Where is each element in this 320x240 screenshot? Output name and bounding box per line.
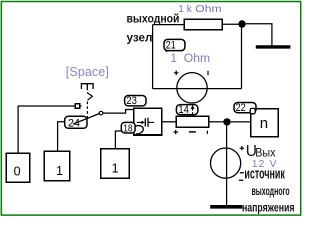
node callout 21 — [164, 39, 185, 52]
source U-top (circle, 1 Ohm) — [174, 71, 208, 104]
indicator box n — [251, 109, 279, 137]
resistor R-top (1 k Ohm) — [184, 19, 222, 30]
node callout 18 — [121, 122, 143, 134]
svg-text:выходного: выходного — [252, 184, 290, 198]
switch terminal (left pin) — [75, 104, 79, 108]
wire: node to resistor R-top left — [153, 24, 185, 26]
wire: loop right vertical — [241, 28, 243, 89]
wire: capacitor box to resistor R-mid — [162, 121, 177, 123]
node callout 23 — [125, 95, 146, 107]
svg-text:21: 21 — [166, 40, 176, 52]
svg-text:22: 22 — [236, 102, 246, 114]
svg-text:Ohm: Ohm — [195, 4, 221, 15]
node callout 14 with arrow — [176, 104, 198, 117]
label: U vyh — [246, 143, 276, 160]
svg-text:14: 14 — [178, 104, 189, 116]
svg-text:напряжения: напряжения — [242, 201, 295, 215]
indicator box 0 — [6, 153, 29, 182]
wire: terminal stub — [80, 105, 82, 107]
value label: 1 k Ohm — [178, 4, 221, 15]
svg-text:n: n — [260, 115, 268, 132]
svg-text:Вых: Вых — [255, 146, 275, 160]
svg-text:выходной: выходной — [127, 13, 180, 25]
wire: junction down through source to ground — [226, 126, 228, 206]
wire: junction to indicator n — [231, 121, 251, 123]
wire: junction to ground stub — [246, 24, 272, 45]
voltage source U-out (12 V circle) — [211, 146, 245, 180]
resistor R-mid — [176, 116, 208, 127]
wire: resistor R-top to junction — [222, 23, 238, 25]
svg-text:1: 1 — [171, 53, 177, 65]
svg-text:источник: источник — [244, 167, 285, 183]
ground (top right) — [256, 45, 291, 48]
svg-text:1: 1 — [112, 162, 119, 176]
wire: switch to capacitor box — [103, 110, 134, 114]
wire: loop left vertical — [152, 25, 154, 89]
node junction dot (top) — [238, 20, 245, 27]
svg-text:1: 1 — [56, 164, 63, 178]
svg-text:0: 0 — [14, 165, 21, 179]
wire: loop bottom horizontal — [153, 88, 242, 90]
svg-text:18: 18 — [123, 122, 133, 134]
node junction dot (middle) — [223, 118, 230, 125]
indicator box 1b — [101, 149, 129, 178]
capacitor component box U-cap — [134, 108, 162, 135]
node label: выходной узел — [127, 13, 180, 44]
svg-text:Ohm: Ohm — [184, 53, 210, 65]
svg-text:[Space]: [Space] — [66, 65, 109, 79]
switch blade — [73, 114, 99, 125]
wire: box 0 to switch terminal — [18, 106, 75, 153]
switch pivot circle — [99, 111, 103, 115]
polarity marks under R-mid — [174, 130, 208, 134]
wire: box 1b up to node 18 — [115, 131, 121, 149]
wire: box 1a up to switch pin (node 24) — [58, 122, 66, 151]
pushbutton dashed link — [86, 102, 88, 119]
node callout 22 — [234, 102, 256, 114]
wire: R-mid to junction — [209, 121, 224, 123]
svg-text:1: 1 — [178, 4, 184, 15]
pushbutton actuator cap — [81, 84, 94, 91]
ground (bottom) — [210, 205, 242, 209]
indicator box 1a — [44, 151, 69, 181]
value label: 1 Ohm — [171, 53, 211, 65]
svg-text:23: 23 — [126, 95, 136, 107]
pushbutton link chevron — [87, 93, 93, 101]
svg-text:узел: узел — [127, 33, 153, 45]
node callout 24 — [65, 116, 87, 129]
